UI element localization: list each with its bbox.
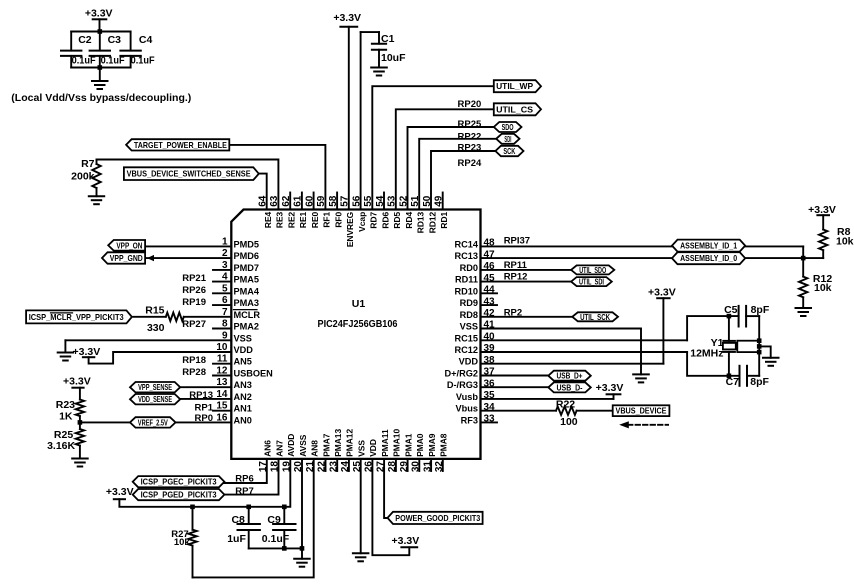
svg-text:VDD: VDD [459, 357, 479, 367]
svg-text:USBOEN: USBOEN [234, 369, 274, 379]
svg-text:ASSEMBLY_ID_1: ASSEMBLY_ID_1 [680, 241, 737, 251]
svg-text:RP19: RP19 [182, 297, 206, 308]
svg-text:100: 100 [560, 416, 578, 428]
svg-text:RP23: RP23 [458, 142, 482, 153]
svg-text:RC13: RC13 [455, 251, 479, 261]
svg-text:U1: U1 [352, 298, 366, 310]
svg-text:RP28: RP28 [182, 367, 206, 378]
svg-text:AN6: AN6 [263, 440, 273, 457]
svg-text:RP20: RP20 [458, 99, 482, 110]
svg-text:MCLR: MCLR [234, 310, 261, 320]
svg-text:RE1: RE1 [298, 211, 308, 228]
svg-text:RP18: RP18 [182, 355, 206, 366]
svg-text:ICSP_MCLR_VPP_PICKIT3: ICSP_MCLR_VPP_PICKIT3 [29, 312, 124, 322]
svg-text:PMD7: PMD7 [234, 263, 260, 273]
svg-text:AN3: AN3 [234, 380, 252, 390]
svg-text:Vbus: Vbus [456, 404, 478, 414]
svg-text:RP22: RP22 [458, 132, 482, 143]
svg-text:1uF: 1uF [227, 533, 246, 545]
svg-text:RD1: RD1 [439, 211, 449, 228]
svg-text:RE4: RE4 [263, 211, 273, 228]
svg-text:VDD: VDD [234, 345, 254, 355]
svg-text:RP6: RP6 [235, 474, 253, 485]
svg-text:+3.3V: +3.3V [392, 535, 420, 547]
svg-text:RP26: RP26 [182, 285, 206, 296]
svg-text:USB_D-: USB_D- [557, 382, 583, 392]
svg-text:VDD_SENSE: VDD_SENSE [138, 394, 172, 404]
svg-text:AN5: AN5 [234, 357, 252, 367]
svg-text:C1: C1 [381, 33, 395, 45]
svg-text:PMA0: PMA0 [415, 433, 425, 457]
svg-text:R7: R7 [81, 158, 95, 170]
svg-text:C4: C4 [139, 34, 153, 46]
svg-text:C2: C2 [78, 34, 92, 46]
svg-text:RP7: RP7 [235, 486, 253, 497]
svg-text:+3.3V: +3.3V [73, 346, 101, 358]
svg-text:0.1uF: 0.1uF [72, 56, 96, 67]
svg-text:C8: C8 [231, 514, 245, 526]
svg-text:+3.3V: +3.3V [596, 382, 624, 394]
svg-text:PMA7: PMA7 [321, 433, 331, 457]
svg-text:PMA4: PMA4 [234, 286, 260, 296]
svg-text:10k: 10k [814, 282, 832, 294]
svg-text:C9: C9 [267, 514, 281, 526]
svg-text:PMA1: PMA1 [403, 433, 413, 457]
svg-text:VSS: VSS [234, 333, 252, 343]
svg-text:+3.3V: +3.3V [333, 12, 361, 24]
svg-text:330: 330 [147, 322, 165, 334]
svg-text:UTIL_CS: UTIL_CS [496, 104, 533, 114]
svg-text:PMA8: PMA8 [439, 433, 449, 457]
svg-text:VSS: VSS [357, 440, 367, 457]
svg-text:PMD6: PMD6 [234, 251, 260, 261]
svg-text:PMA3: PMA3 [234, 298, 260, 308]
svg-text:RC12: RC12 [455, 345, 479, 355]
svg-text:PMA12: PMA12 [345, 429, 355, 457]
svg-text:R15: R15 [145, 305, 164, 317]
svg-text:RD4: RD4 [404, 211, 414, 228]
svg-text:RE3: RE3 [275, 211, 285, 228]
svg-text:0.1uF: 0.1uF [131, 56, 155, 67]
svg-text:AN0: AN0 [234, 415, 252, 425]
svg-text:10uF: 10uF [381, 52, 406, 64]
svg-text:AN1: AN1 [234, 404, 252, 414]
svg-text:ICSP_PGEC_PICKIT3: ICSP_PGEC_PICKIT3 [141, 477, 217, 487]
svg-text:0.1uF: 0.1uF [262, 533, 290, 545]
svg-text:POWER_GOOD_PICKIT3: POWER_GOOD_PICKIT3 [395, 513, 480, 523]
svg-text:ASSEMBLY_ID_0: ASSEMBLY_ID_0 [680, 253, 737, 263]
svg-text:RD10: RD10 [455, 286, 479, 296]
svg-text:VPP_ON: VPP_ON [116, 240, 142, 250]
svg-text:SDI: SDI [504, 134, 511, 144]
svg-text:AN2: AN2 [234, 392, 252, 402]
svg-text:Vcap: Vcap [357, 212, 367, 232]
svg-text:RD6: RD6 [380, 211, 390, 228]
svg-text:PMA5: PMA5 [234, 275, 260, 285]
svg-text:RP27: RP27 [182, 319, 206, 330]
svg-text:10k: 10k [174, 537, 191, 548]
svg-text:(Local Vdd/Vss bypass/decoupli: (Local Vdd/Vss bypass/decoupling.) [11, 92, 191, 104]
svg-text:RPI37: RPI37 [504, 236, 530, 247]
svg-text:3.16K: 3.16K [47, 440, 75, 452]
svg-text:PMA10: PMA10 [392, 429, 402, 457]
svg-text:RD0: RD0 [460, 263, 478, 273]
svg-text:VBUS_DEVICE: VBUS_DEVICE [616, 406, 667, 416]
svg-text:RP24: RP24 [458, 158, 482, 169]
svg-text:+3.3V: +3.3V [106, 486, 134, 498]
svg-text:TARGET_POWER_ENABLE: TARGET_POWER_ENABLE [134, 140, 227, 150]
svg-text:Vusb: Vusb [456, 392, 479, 402]
svg-text:VBUS_DEVICE_SWITCHED_SENSE: VBUS_DEVICE_SWITCHED_SENSE [127, 169, 251, 179]
svg-text:PMA9: PMA9 [427, 433, 437, 457]
svg-text:UTIL_SDI: UTIL_SDI [579, 277, 604, 287]
svg-text:ICSP_PGED_PICKIT3: ICSP_PGED_PICKIT3 [141, 490, 217, 500]
svg-text:PMA2: PMA2 [234, 322, 260, 332]
svg-text:8pF: 8pF [751, 304, 770, 316]
svg-text:RF0: RF0 [333, 211, 343, 227]
svg-text:12MHz: 12MHz [690, 348, 723, 360]
svg-text:RP25: RP25 [458, 119, 482, 130]
svg-text:AN8: AN8 [310, 440, 320, 457]
svg-text:0.1uF: 0.1uF [101, 56, 125, 67]
svg-text:RF1: RF1 [322, 211, 332, 227]
svg-text:PMA11: PMA11 [380, 429, 390, 457]
svg-text:UTIL_SCK: UTIL_SCK [580, 312, 610, 322]
svg-text:VPP_GND: VPP_GND [110, 253, 143, 263]
svg-text:PMD5: PMD5 [234, 239, 260, 249]
svg-text:R22: R22 [556, 399, 575, 411]
svg-text:VREF_2.5V: VREF_2.5V [138, 417, 168, 427]
svg-text:10k: 10k [836, 235, 854, 247]
svg-text:+3.3V: +3.3V [63, 375, 91, 387]
svg-text:PIC24FJ256GB106: PIC24FJ256GB106 [318, 318, 398, 330]
svg-text:200k: 200k [71, 171, 95, 183]
svg-text:RD13: RD13 [416, 211, 426, 233]
svg-text:RF3: RF3 [461, 415, 478, 425]
svg-text:C5: C5 [724, 304, 738, 316]
svg-text:8pF: 8pF [750, 376, 769, 388]
svg-text:SDO: SDO [502, 122, 514, 132]
svg-text:RD9: RD9 [460, 298, 478, 308]
svg-text:D+/RG2: D+/RG2 [445, 369, 478, 379]
svg-text:UTIL_WP: UTIL_WP [496, 81, 533, 91]
svg-text:VPP_SENSE: VPP_SENSE [138, 382, 172, 392]
svg-text:RE2: RE2 [287, 211, 297, 228]
svg-text:ENVREG: ENVREG [345, 212, 355, 247]
svg-text:+3.3V: +3.3V [85, 8, 113, 20]
svg-text:C7: C7 [726, 376, 740, 388]
svg-text:1K: 1K [59, 411, 73, 423]
svg-text:RD11: RD11 [455, 275, 478, 285]
svg-text:RP21: RP21 [182, 273, 206, 284]
svg-text:AVSS: AVSS [298, 434, 308, 457]
svg-text:RC14: RC14 [455, 239, 479, 249]
svg-text:RC15: RC15 [455, 333, 479, 343]
svg-text:VSS: VSS [460, 322, 478, 332]
svg-text:RD8: RD8 [460, 310, 478, 320]
svg-text:C3: C3 [108, 34, 122, 46]
svg-text:RP1: RP1 [195, 403, 214, 414]
svg-text:D-/RG3: D-/RG3 [447, 380, 478, 390]
svg-text:VDD: VDD [368, 439, 378, 457]
svg-text:R23: R23 [56, 399, 75, 411]
svg-text:RD12: RD12 [427, 211, 437, 233]
svg-text:RD5: RD5 [392, 211, 402, 228]
svg-text:UTIL_SDO: UTIL_SDO [579, 265, 606, 275]
svg-text:RD7: RD7 [369, 211, 379, 228]
svg-text:RE0: RE0 [310, 211, 320, 228]
svg-text:USB_D+: USB_D+ [557, 371, 583, 381]
svg-text:SCK: SCK [503, 146, 515, 156]
svg-text:AN7: AN7 [274, 440, 284, 457]
svg-text:PMA13: PMA13 [333, 429, 343, 457]
svg-text:AVDD: AVDD [286, 434, 296, 457]
svg-text:+3.3V: +3.3V [648, 286, 676, 298]
